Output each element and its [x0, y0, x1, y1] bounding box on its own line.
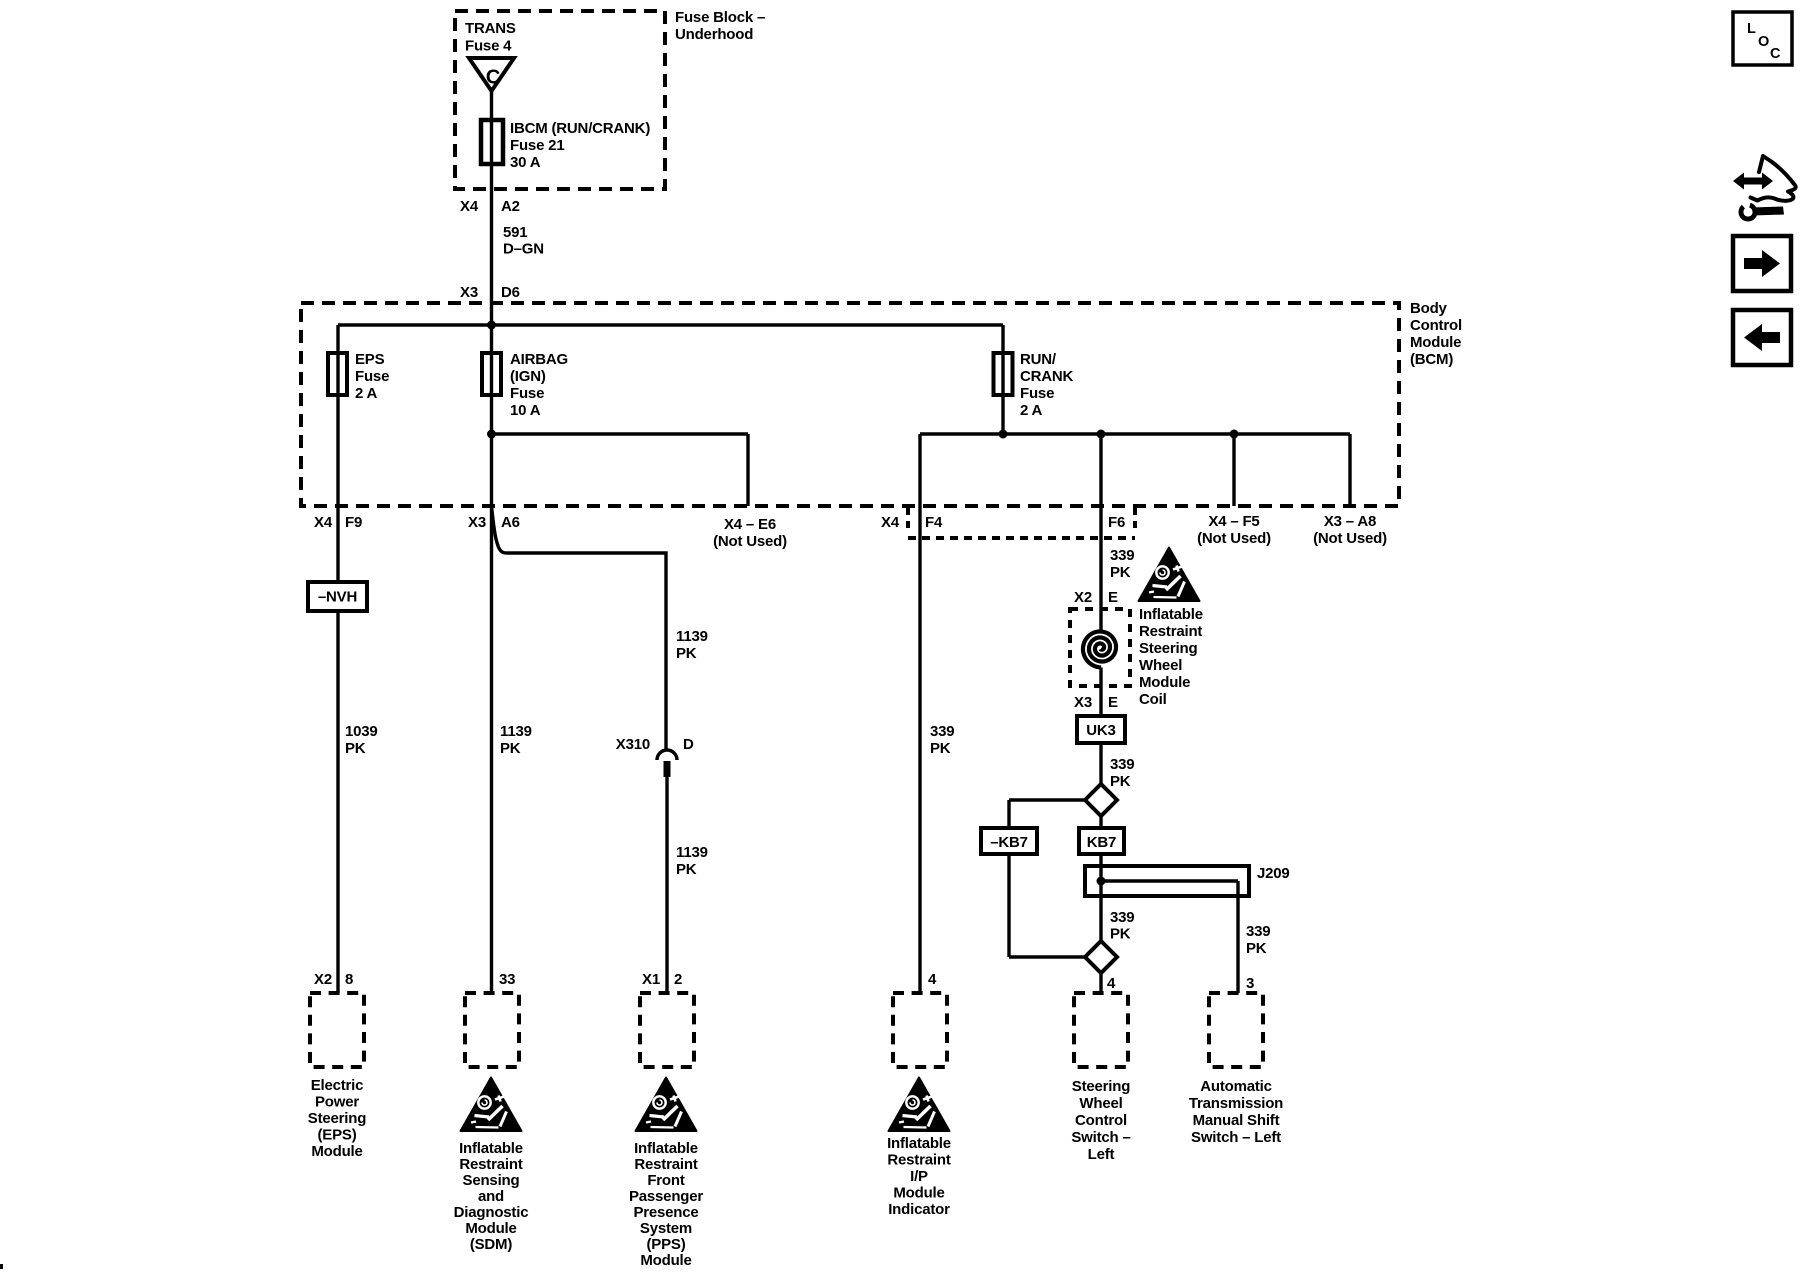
svg-text:1139: 1139 [676, 628, 708, 645]
svg-text:A2: A2 [501, 198, 520, 215]
svg-text:Front: Front [647, 1172, 685, 1189]
svg-text:L: L [1747, 21, 1756, 37]
svg-text:System: System [640, 1220, 692, 1237]
svg-text:Sensing: Sensing [463, 1172, 520, 1189]
svg-text:33: 33 [499, 971, 515, 988]
svg-text:Control: Control [1075, 1112, 1127, 1129]
svg-text:(Not Used): (Not Used) [713, 533, 787, 550]
svg-text:339: 339 [1110, 756, 1134, 773]
svg-text:(SDM): (SDM) [470, 1236, 513, 1253]
svg-text:1139: 1139 [500, 723, 532, 740]
svg-text:CRANK: CRANK [1020, 368, 1074, 385]
svg-text:PK: PK [930, 740, 951, 757]
svg-text:–NVH: –NVH [318, 589, 357, 606]
svg-text:Inflatable: Inflatable [1139, 606, 1203, 623]
svg-text:Wheel: Wheel [1079, 1095, 1122, 1112]
svg-text:Module: Module [465, 1220, 516, 1237]
svg-text:RUN/: RUN/ [1020, 351, 1057, 368]
svg-text:F9: F9 [345, 514, 362, 531]
svg-text:AIRBAG: AIRBAG [510, 351, 568, 368]
svg-text:Presence: Presence [633, 1204, 698, 1221]
svg-text:(Not Used): (Not Used) [1197, 530, 1271, 547]
svg-text:X3: X3 [468, 514, 486, 531]
svg-text:339: 339 [930, 723, 954, 740]
svg-text:339: 339 [1110, 547, 1134, 564]
svg-text:X4 – E6: X4 – E6 [724, 516, 776, 533]
svg-text:Body: Body [1410, 300, 1448, 317]
svg-text:X4: X4 [460, 198, 479, 215]
svg-text:Restraint: Restraint [634, 1156, 697, 1173]
svg-text:(IGN): (IGN) [510, 368, 546, 385]
svg-text:Fuse: Fuse [355, 368, 389, 385]
svg-text:Coil: Coil [1139, 691, 1167, 708]
svg-text:1039: 1039 [345, 723, 378, 740]
svg-text:X4: X4 [881, 514, 900, 531]
svg-text:F4: F4 [925, 514, 943, 531]
svg-text:X3: X3 [1074, 694, 1092, 711]
svg-text:D: D [683, 736, 694, 753]
svg-text:PK: PK [500, 740, 521, 757]
svg-text:J209: J209 [1257, 865, 1290, 882]
svg-text:Power: Power [315, 1094, 359, 1111]
svg-text:Steering: Steering [308, 1110, 366, 1127]
svg-text:Module: Module [1410, 334, 1461, 351]
svg-text:X3 – A8: X3 – A8 [1324, 513, 1376, 530]
svg-text:X310: X310 [616, 736, 650, 753]
svg-text:X4 – F5: X4 – F5 [1208, 513, 1259, 530]
svg-text:(Not Used): (Not Used) [1313, 530, 1387, 547]
svg-text:C: C [486, 67, 500, 89]
svg-text:Restraint: Restraint [887, 1152, 950, 1169]
svg-text:and: and [478, 1188, 504, 1205]
svg-text:A6: A6 [501, 514, 520, 531]
svg-text:1139: 1139 [676, 844, 708, 861]
svg-text:TRANS: TRANS [465, 20, 516, 37]
svg-text:Electric: Electric [311, 1077, 364, 1094]
svg-text:PK: PK [1110, 926, 1131, 943]
svg-text:Indicator: Indicator [888, 1201, 950, 1218]
svg-text:Steering: Steering [1072, 1078, 1130, 1095]
svg-text:Restraint: Restraint [459, 1156, 522, 1173]
svg-text:–KB7: –KB7 [990, 834, 1028, 851]
svg-text:UK3: UK3 [1086, 722, 1115, 739]
svg-text:Fuse 21: Fuse 21 [510, 137, 564, 154]
svg-text:Inflatable: Inflatable [459, 1140, 523, 1157]
svg-text:2 A: 2 A [355, 385, 378, 402]
svg-text:X3: X3 [460, 284, 478, 301]
svg-text:Control: Control [1410, 317, 1462, 334]
svg-text:X2: X2 [1074, 589, 1092, 606]
svg-text:PK: PK [1110, 564, 1131, 581]
svg-text:Fuse 4: Fuse 4 [465, 38, 512, 55]
svg-text:PK: PK [676, 861, 697, 878]
svg-text:C: C [1770, 46, 1781, 62]
svg-text:Manual Shift: Manual Shift [1193, 1112, 1280, 1129]
svg-text:4: 4 [928, 971, 937, 988]
svg-text:Diagnostic: Diagnostic [454, 1204, 529, 1221]
svg-text:O: O [1758, 34, 1769, 50]
svg-text:(EPS): (EPS) [317, 1127, 356, 1144]
svg-text:KB7: KB7 [1087, 834, 1116, 851]
svg-text:Switch – Left: Switch – Left [1191, 1129, 1281, 1146]
svg-text:PK: PK [1246, 940, 1267, 957]
svg-text:Transmission: Transmission [1189, 1095, 1283, 1112]
svg-text:IBCM (RUN/CRANK): IBCM (RUN/CRANK) [510, 120, 650, 137]
svg-text:D–GN: D–GN [503, 241, 544, 258]
svg-text:D6: D6 [501, 284, 520, 301]
svg-text:X1: X1 [642, 971, 660, 988]
svg-text:339: 339 [1110, 909, 1134, 926]
svg-text:3: 3 [1246, 975, 1254, 992]
svg-text:E: E [1108, 589, 1118, 606]
svg-text:I/P: I/P [910, 1168, 928, 1185]
svg-text:Underhood: Underhood [675, 26, 753, 43]
svg-text:Switch –: Switch – [1071, 1129, 1130, 1146]
svg-text:X2: X2 [314, 971, 332, 988]
svg-text:F6: F6 [1108, 514, 1125, 531]
svg-text:Module: Module [640, 1252, 691, 1269]
svg-text:Module: Module [1139, 674, 1190, 691]
svg-text:339: 339 [1246, 923, 1270, 940]
svg-text:Inflatable: Inflatable [887, 1135, 951, 1152]
svg-text:591: 591 [503, 224, 527, 241]
svg-text:Wheel: Wheel [1139, 657, 1182, 674]
svg-text:Automatic: Automatic [1200, 1078, 1272, 1095]
svg-text:(BCM): (BCM) [1410, 351, 1453, 368]
svg-text:8: 8 [345, 971, 353, 988]
svg-text:Restraint: Restraint [1139, 623, 1202, 640]
svg-text:4: 4 [1107, 975, 1116, 992]
svg-text:Fuse: Fuse [1020, 385, 1054, 402]
svg-text:Module: Module [311, 1143, 362, 1160]
svg-text:(PPS): (PPS) [646, 1236, 685, 1253]
svg-text:Left: Left [1088, 1146, 1115, 1163]
svg-text:E: E [1108, 694, 1118, 711]
svg-text:2 A: 2 A [1020, 402, 1043, 419]
svg-text:PK: PK [1110, 773, 1131, 790]
svg-text:Fuse: Fuse [510, 385, 544, 402]
svg-text:Passenger: Passenger [629, 1188, 703, 1205]
svg-text:Steering: Steering [1139, 640, 1197, 657]
svg-text:2: 2 [674, 971, 682, 988]
svg-text:Inflatable: Inflatable [634, 1140, 698, 1157]
svg-text:EPS: EPS [355, 351, 385, 368]
svg-text:10 A: 10 A [510, 402, 541, 419]
svg-text:PK: PK [345, 740, 366, 757]
svg-text:PK: PK [676, 645, 697, 662]
svg-text:Module: Module [893, 1185, 944, 1202]
svg-text:Fuse Block –: Fuse Block – [675, 9, 765, 26]
svg-text:30 A: 30 A [510, 154, 541, 171]
svg-text:X4: X4 [314, 514, 333, 531]
